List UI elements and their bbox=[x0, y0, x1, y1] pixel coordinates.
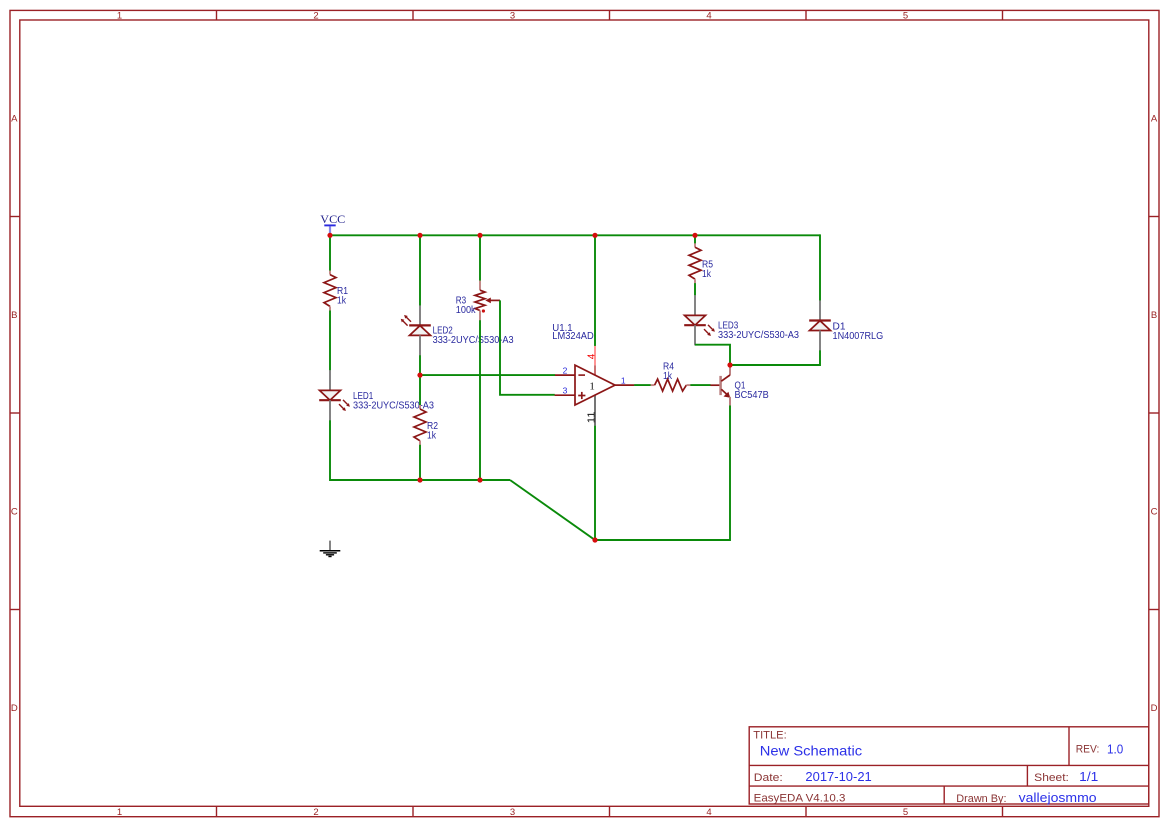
svg-text:2: 2 bbox=[313, 10, 318, 21]
diode D1 bbox=[809, 300, 883, 350]
wire D1 to Q1 collector node bbox=[730, 350, 820, 365]
svg-text:1: 1 bbox=[621, 375, 626, 385]
junction node VCC-LED2 bbox=[417, 233, 422, 238]
svg-text:333-2UYC/S530-A3: 333-2UYC/S530-A3 bbox=[718, 330, 799, 341]
svg-text:B: B bbox=[11, 310, 17, 321]
wire VCC top rail bbox=[330, 234, 820, 236]
wire VCC rail to D1 bbox=[818, 235, 821, 300]
wire LED2 to node bbox=[419, 355, 421, 405]
wire op-amp out to R4 bbox=[634, 384, 651, 386]
svg-text:D: D bbox=[11, 703, 18, 714]
junction node VCC-R5 bbox=[692, 233, 697, 238]
svg-text:REV:: REV: bbox=[1076, 744, 1100, 756]
wire R2 to bottom rail bbox=[419, 445, 421, 480]
wire VCC to R5 bbox=[694, 235, 696, 243]
junction node pin11-bottom bbox=[592, 537, 597, 542]
junction node R3-bottom bbox=[477, 477, 482, 482]
wire R5 to LED3 bbox=[694, 283, 696, 295]
svg-text:4: 4 bbox=[706, 10, 711, 21]
svg-text:3: 3 bbox=[510, 807, 515, 818]
junction node VCC-R3 bbox=[477, 233, 482, 238]
wire op-amp pin11 to bottom bbox=[594, 426, 596, 540]
wire R1 to LED1 bbox=[329, 311, 331, 371]
svg-text:VCC: VCC bbox=[320, 214, 345, 226]
junction node VCC-pin4 bbox=[592, 233, 597, 238]
svg-text:1k: 1k bbox=[702, 269, 712, 280]
junction node LED2-R2-pin2 bbox=[417, 373, 422, 378]
power flag VCC bbox=[320, 214, 345, 235]
svg-text:1: 1 bbox=[589, 381, 595, 393]
svg-text:4: 4 bbox=[706, 807, 711, 818]
wire R3 wiper to op-amp pin3 bbox=[500, 300, 555, 394]
junction node Q1-collector bbox=[727, 362, 732, 367]
svg-text:LM324AD: LM324AD bbox=[552, 331, 593, 342]
svg-text:3: 3 bbox=[563, 386, 568, 396]
op-amp U1.1 LM324AD bbox=[552, 323, 634, 426]
svg-text:D: D bbox=[1151, 703, 1158, 714]
svg-text:New Schematic: New Schematic bbox=[760, 743, 862, 759]
ground bbox=[320, 541, 341, 557]
svg-text:1N4007RLG: 1N4007RLG bbox=[833, 331, 884, 342]
svg-text:1k: 1k bbox=[337, 295, 347, 306]
svg-text:vallejosmmo: vallejosmmo bbox=[1019, 791, 1097, 805]
svg-text:1: 1 bbox=[117, 807, 122, 818]
resistor R4 bbox=[651, 362, 691, 392]
svg-text:BC547B: BC547B bbox=[735, 390, 769, 401]
svg-text:A: A bbox=[11, 114, 18, 125]
svg-text:Drawn By:: Drawn By: bbox=[956, 793, 1006, 805]
resistor R5 bbox=[689, 243, 713, 283]
svg-text:1.0: 1.0 bbox=[1107, 742, 1123, 756]
LED LED2 bbox=[401, 305, 514, 355]
wire LED3 to Q1 collector node bbox=[695, 345, 730, 365]
wire diagonal bottom bbox=[510, 405, 730, 540]
svg-text:1k: 1k bbox=[427, 430, 437, 441]
wire R3 to bottom rail bbox=[479, 320, 481, 480]
wire VCC to R1 bbox=[329, 235, 331, 270]
svg-text:2: 2 bbox=[313, 807, 318, 818]
wire VCC to R3 bbox=[479, 235, 481, 280]
LED LED3 bbox=[684, 295, 799, 345]
resistor R1 bbox=[324, 271, 348, 311]
svg-text:3: 3 bbox=[510, 10, 515, 21]
svg-text:11: 11 bbox=[587, 411, 598, 423]
svg-text:A: A bbox=[1151, 114, 1158, 125]
wire LED1 to bottom rail bbox=[330, 420, 510, 480]
svg-text:1/1: 1/1 bbox=[1079, 770, 1098, 784]
svg-text:1: 1 bbox=[117, 10, 122, 21]
resistor R2 bbox=[414, 405, 438, 445]
svg-text:Sheet:: Sheet: bbox=[1034, 772, 1069, 784]
junction node R2-bottom bbox=[417, 477, 422, 482]
svg-text:B: B bbox=[1151, 310, 1157, 321]
svg-text:TITLE:: TITLE: bbox=[753, 730, 786, 742]
wire node to op-amp pin2 bbox=[420, 374, 555, 376]
potentiometer R3 bbox=[456, 281, 500, 321]
wire R4 to Q1 base bbox=[690, 384, 710, 386]
junction node VCC-R1 bbox=[327, 233, 332, 238]
svg-text:5: 5 bbox=[903, 807, 908, 818]
svg-text:4: 4 bbox=[586, 353, 597, 359]
svg-text:Date:: Date: bbox=[754, 772, 783, 784]
title block bbox=[749, 727, 1149, 805]
transistor Q1 BC547B bbox=[710, 366, 769, 405]
LED LED1 bbox=[319, 370, 434, 420]
svg-text:5: 5 bbox=[903, 10, 908, 21]
svg-text:2: 2 bbox=[563, 365, 568, 375]
svg-text:333-2UYC/S530-A3: 333-2UYC/S530-A3 bbox=[433, 335, 514, 346]
wire VCC to op-amp pin4 bbox=[594, 235, 596, 346]
svg-text:C: C bbox=[1151, 507, 1158, 518]
svg-text:1k: 1k bbox=[663, 371, 673, 382]
svg-text:C: C bbox=[11, 507, 18, 518]
wire VCC to LED2 bbox=[419, 235, 421, 305]
svg-text:100k: 100k bbox=[456, 305, 477, 316]
svg-text:2017-10-21: 2017-10-21 bbox=[805, 770, 871, 784]
svg-text:EasyEDA V4.10.3: EasyEDA V4.10.3 bbox=[754, 793, 846, 805]
